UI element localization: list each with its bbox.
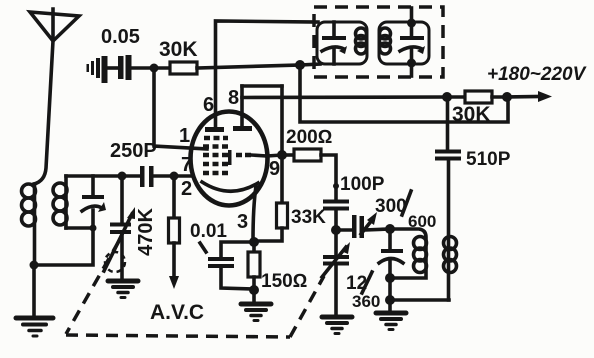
ground 12/360 — [322, 317, 352, 334]
inductor L4 feedback winding — [444, 160, 457, 300]
IF tank 1 loop — [317, 22, 367, 64]
inductor L2 antenna secondary — [53, 176, 67, 228]
resistor 30K grid leak — [154, 38, 300, 74]
wire L2 bottom to trimmer — [66, 226, 93, 230]
wire to ground node — [388, 278, 392, 300]
wire secondary return — [34, 228, 93, 265]
junction ground node — [385, 295, 395, 305]
capacitor 0.01 — [190, 221, 254, 289]
tube cathode — [202, 182, 258, 241]
svg-text:150Ω: 150Ω — [261, 271, 307, 292]
trimmer capacitor across L2 — [82, 176, 106, 228]
junction screen rail — [442, 92, 452, 102]
capacitor 300/600 series — [336, 191, 436, 238]
svg-text:30K: 30K — [159, 38, 198, 61]
IF tank 1 trimmer cap — [322, 22, 347, 64]
capacitor 510P — [435, 97, 511, 170]
resistor 33K — [254, 155, 326, 241]
variable capacitor 12/360 — [322, 230, 380, 316]
wire L4 return — [390, 298, 449, 302]
svg-text:6: 6 — [203, 94, 214, 116]
svg-text:0.05: 0.05 — [101, 26, 140, 48]
svg-text:7: 7 — [181, 154, 192, 176]
dashed gang circle — [105, 252, 125, 272]
svg-text:30K: 30K — [452, 103, 491, 126]
tube V1 envelope — [191, 112, 268, 206]
dashed gang link — [66, 241, 324, 337]
capacitor 250P — [110, 140, 157, 187]
tube anode pin6 — [205, 127, 224, 132]
svg-text:250P: 250P — [110, 140, 157, 162]
capacitor 100P — [323, 174, 385, 230]
resistor 200 ohm — [282, 127, 336, 200]
svg-text:9: 9 — [269, 158, 280, 180]
IF tank 1 coil — [356, 28, 367, 54]
tube grid rows — [203, 138, 251, 173]
wire B+ arrow — [487, 64, 587, 102]
svg-text:A.V.C: A.V.C — [150, 301, 204, 324]
IF transformer dashed box — [314, 7, 443, 77]
resistor 470K — [135, 176, 180, 289]
ground cathode — [241, 304, 271, 321]
junction cathode bottom — [249, 285, 259, 295]
wire B+ to tank bottom — [300, 64, 320, 65]
ground oscillator — [376, 300, 406, 330]
IF tank 2 loop — [379, 22, 429, 64]
ground tuning cap 1 — [108, 281, 138, 298]
svg-text:0.01: 0.01 — [190, 221, 227, 242]
IF tank 2 trimmer cap — [400, 8, 425, 76]
svg-text:3: 3 — [237, 211, 248, 233]
wire junction to grid pin1 — [154, 68, 207, 149]
junction tuning node — [331, 225, 341, 235]
junction 470K tap — [170, 172, 179, 181]
resistor 150 ohm — [248, 242, 307, 303]
junction B+ IF primary — [295, 60, 305, 70]
ground antenna circuit — [16, 265, 53, 336]
trimmer oscillator padder — [379, 229, 403, 278]
svg-text:200Ω: 200Ω — [286, 127, 332, 148]
junction padder bottom — [385, 273, 395, 283]
wire pin8 screen lead — [242, 86, 447, 155]
svg-text:33K: 33K — [291, 207, 326, 228]
wire B+ riser — [300, 65, 508, 122]
node junction L1/L2 bottom — [30, 261, 39, 270]
junction tuning cap top — [118, 172, 127, 181]
junction pin9 node — [277, 150, 287, 160]
wire secondary top to tube pin7 — [66, 174, 193, 178]
antenna — [30, 9, 79, 184]
wire pin6 to IF transformer — [216, 21, 319, 127]
tube anode pin8 — [233, 126, 252, 131]
pin 9 internal lead — [251, 155, 267, 156]
svg-text:470K: 470K — [135, 208, 157, 256]
inductor L1 antenna primary — [22, 184, 36, 265]
inductor L3 oscillator tank coil — [390, 229, 427, 278]
junction B+ arrow node — [502, 92, 512, 102]
svg-text:360: 360 — [352, 292, 380, 311]
junction oscillator node — [385, 224, 395, 234]
wire pin9 — [267, 155, 282, 156]
variable capacitor tuning gang 1 — [104, 176, 135, 281]
junction cathode node — [249, 237, 259, 247]
junction trimmer bottom — [90, 225, 97, 232]
svg-text:1: 1 — [179, 125, 190, 147]
svg-text:510P: 510P — [466, 149, 511, 170]
svg-text:+180~220V: +180~220V — [487, 64, 587, 85]
IF tank 2 coil — [380, 28, 391, 54]
resistor 30K B+ — [447, 91, 507, 126]
svg-text:2: 2 — [181, 178, 192, 200]
capacitor 0.05 input — [87, 26, 155, 83]
svg-text:8: 8 — [228, 87, 239, 109]
junction grid leak — [150, 64, 159, 73]
svg-text:100P: 100P — [340, 174, 385, 195]
